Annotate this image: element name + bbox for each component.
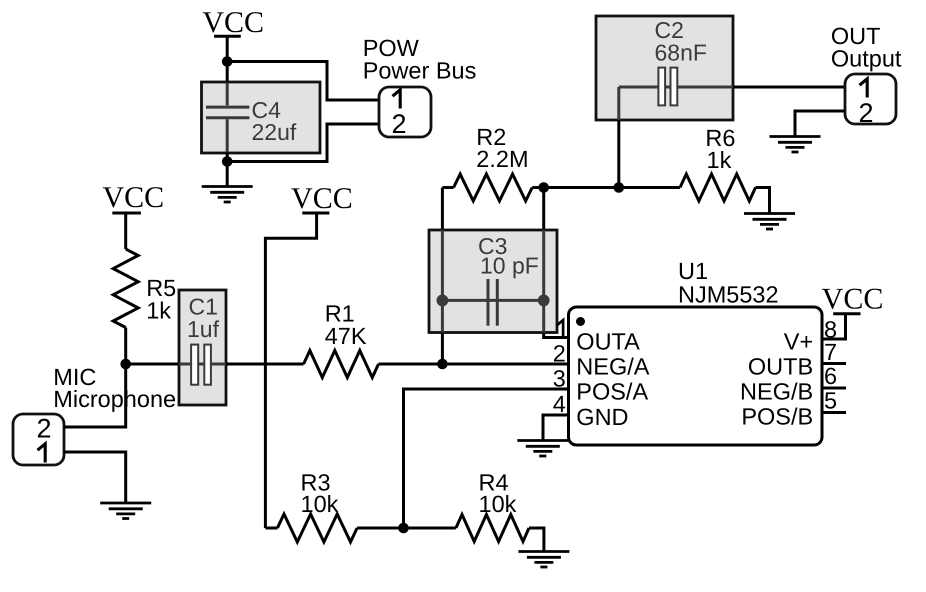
- wire R6 right to ground: [756, 188, 770, 214]
- wire R2 left lead: [442, 186, 453, 189]
- ground below R6: [744, 214, 795, 230]
- resistor R6 label: [705, 125, 735, 173]
- ground below OUT: [770, 137, 821, 153]
- svg-text:Microphone: Microphone: [53, 386, 176, 412]
- junction dot C2/R6: [614, 182, 625, 193]
- wire C4 bottom to POW pin2: [227, 124, 379, 162]
- wire R2 right vertical to U1 pin1: [544, 188, 569, 338]
- svg-text:NEG/B: NEG/B: [740, 378, 813, 404]
- svg-text:V+: V+: [784, 329, 813, 355]
- wire R2 to C2/R6: [544, 186, 619, 189]
- wire R3 left lead: [265, 527, 277, 530]
- connector P1 MIC: [13, 414, 64, 466]
- connector P2 POW: [379, 87, 431, 139]
- resistor R4 label: [479, 470, 517, 518]
- wire C2 down to R2/R6 net: [617, 120, 620, 188]
- svg-text:68nF: 68nF: [655, 40, 707, 66]
- wire main net left segment: [126, 363, 179, 366]
- resistor R5 label: [146, 275, 176, 324]
- svg-text:VCC: VCC: [102, 181, 164, 214]
- junction dot MIC node: [120, 359, 131, 370]
- svg-text:POS/A: POS/A: [576, 378, 648, 404]
- wire VCC to POW pin1: [227, 62, 379, 101]
- junction dot main net: [437, 359, 448, 370]
- capacitor C1: [179, 290, 226, 405]
- svg-text:3: 3: [553, 366, 566, 392]
- wire main net C1 to U1 pin2: [226, 363, 304, 366]
- wire U1 pin4 to ground: [543, 415, 569, 441]
- capacitor C4: [202, 82, 321, 153]
- svg-text:NEG/A: NEG/A: [576, 353, 649, 379]
- wire R5 bottom lead: [124, 328, 127, 365]
- connector P2 POW label: [363, 35, 477, 83]
- svg-text:1k: 1k: [707, 147, 732, 173]
- svg-text:VCC: VCC: [202, 6, 264, 39]
- resistor R6: [680, 174, 756, 201]
- power symbol VCC left: [102, 181, 164, 249]
- wire MIC pin2 to node: [64, 364, 126, 427]
- connector P3 OUT: [845, 74, 896, 128]
- svg-text:7: 7: [824, 339, 837, 365]
- op-amp U1: [569, 307, 823, 445]
- connector P3 OUT label: [831, 23, 902, 72]
- pin number 3: [553, 366, 566, 392]
- svg-text:6: 6: [824, 363, 837, 389]
- wire U1 pin8 to VCC: [822, 315, 846, 340]
- wire MIC pin1 to ground: [64, 452, 126, 503]
- junction dot R2 right: [538, 182, 549, 193]
- svg-text:U1: U1: [678, 258, 708, 284]
- resistor R5: [113, 249, 138, 328]
- pin number 6: [824, 363, 837, 389]
- svg-text:1uf: 1uf: [187, 316, 220, 342]
- svg-text:2: 2: [858, 98, 873, 128]
- capacitor C2: [596, 16, 733, 120]
- svg-text:2: 2: [36, 414, 51, 444]
- pin number 2: [553, 341, 566, 367]
- svg-text:2.2M: 2.2M: [476, 146, 528, 172]
- pin number 1: [556, 320, 563, 336]
- svg-text:OUTA: OUTA: [576, 329, 640, 355]
- resistor R4: [456, 515, 529, 542]
- resistor R1: [304, 351, 379, 378]
- svg-text:Power Bus: Power Bus: [363, 57, 477, 83]
- svg-text:5: 5: [824, 388, 837, 414]
- wire VCC2 feed down to R3: [265, 214, 316, 528]
- svg-text:POS/B: POS/B: [741, 404, 813, 430]
- wire R2 right lead: [532, 186, 544, 189]
- svg-text:1k: 1k: [146, 298, 171, 324]
- ground below U1 pin4: [517, 441, 568, 457]
- pin number 5: [824, 388, 837, 414]
- pin number 4: [553, 391, 566, 417]
- svg-text:10 pF: 10 pF: [480, 253, 539, 279]
- resistor R3 label: [301, 470, 339, 518]
- svg-text:2: 2: [553, 341, 566, 367]
- resistor R1 label: [325, 301, 367, 350]
- label MIC: [53, 364, 176, 412]
- svg-text:VCC: VCC: [291, 182, 353, 215]
- wire R2 left vertical: [441, 188, 444, 365]
- power symbol VCC top: [202, 6, 264, 82]
- svg-text:2: 2: [391, 109, 406, 139]
- wire OUT pin2 to ground: [795, 111, 845, 137]
- svg-text:47K: 47K: [325, 323, 367, 349]
- pin number 8: [824, 317, 837, 343]
- ground below MIC: [100, 503, 151, 519]
- wire R4 right to ground: [529, 528, 544, 552]
- wire C4 to ground: [226, 153, 229, 187]
- svg-text:22uf: 22uf: [252, 119, 297, 145]
- wire U1 pin7 stub: [822, 362, 846, 365]
- wire C2 to OUT pin1: [733, 86, 845, 89]
- wire R3 to R4: [357, 527, 456, 530]
- svg-text:Output: Output: [831, 46, 902, 72]
- svg-text:NJM5532: NJM5532: [678, 282, 779, 308]
- power symbol VCC right: [822, 283, 884, 316]
- svg-text:VCC: VCC: [822, 283, 884, 316]
- resistor R2: [454, 174, 533, 201]
- op-amp U1 label: [678, 258, 779, 308]
- svg-text:10k: 10k: [301, 491, 339, 517]
- ground below C4: [202, 187, 253, 203]
- pin number 7: [824, 339, 837, 365]
- wire R1 right to U1 pin2: [379, 363, 569, 366]
- wire U1 pin3 to R3/R4 node: [404, 389, 569, 528]
- wire R6 left lead: [619, 186, 680, 189]
- wire U1 pin5 stub: [822, 411, 846, 414]
- svg-text:GND: GND: [576, 404, 628, 430]
- svg-text:OUTB: OUTB: [748, 353, 813, 379]
- resistor R3: [277, 514, 357, 542]
- junction dot R3/R4: [398, 523, 409, 534]
- power symbol VCC mid: [291, 182, 353, 215]
- junction dot C4 bottom: [222, 156, 233, 167]
- junction dot C4 top: [222, 56, 233, 67]
- resistor R2 label: [476, 124, 528, 172]
- svg-text:4: 4: [553, 391, 566, 417]
- capacitor C3: [429, 230, 557, 333]
- wire U1 pin6 stub: [822, 387, 846, 390]
- ground below R4: [518, 552, 569, 568]
